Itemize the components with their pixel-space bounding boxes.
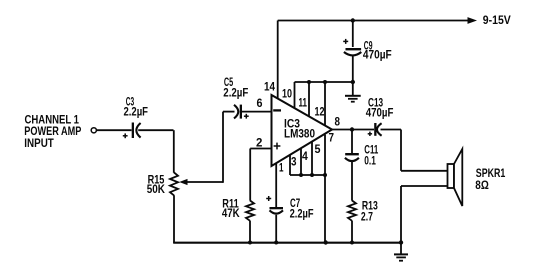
svg-text:11: 11	[299, 98, 308, 110]
svg-text:14: 14	[264, 81, 276, 93]
svg-text:47K: 47K	[222, 206, 240, 220]
svg-text:5: 5	[315, 144, 322, 156]
svg-text:3: 3	[291, 157, 297, 169]
svg-text:7: 7	[329, 133, 335, 145]
svg-text:2.7: 2.7	[361, 209, 373, 223]
svg-text:2: 2	[256, 138, 262, 150]
svg-text:LM380: LM380	[284, 127, 315, 141]
svg-text:1: 1	[279, 163, 284, 175]
svg-text:470µF: 470µF	[363, 47, 392, 61]
svg-text:8Ω: 8Ω	[475, 178, 489, 192]
svg-text:2.2µF: 2.2µF	[223, 86, 248, 100]
svg-text:INPUT: INPUT	[24, 136, 54, 150]
svg-text:2.2µF: 2.2µF	[290, 207, 314, 221]
svg-text:12: 12	[315, 107, 325, 119]
svg-text:4: 4	[302, 151, 308, 163]
svg-text:470µF: 470µF	[366, 106, 394, 120]
svg-text:50K: 50K	[147, 182, 165, 196]
svg-text:0.1: 0.1	[364, 154, 376, 168]
svg-text:2.2µF: 2.2µF	[124, 105, 149, 119]
svg-text:6: 6	[257, 98, 263, 110]
svg-text:8: 8	[335, 117, 341, 129]
svg-text:9-15V: 9-15V	[483, 13, 511, 27]
svg-text:10: 10	[282, 89, 292, 101]
